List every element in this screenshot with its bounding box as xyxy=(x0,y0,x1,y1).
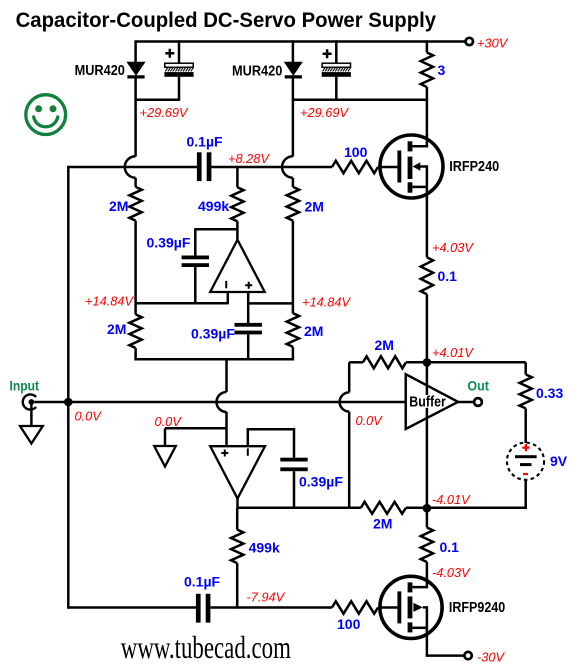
node -30V terminal xyxy=(464,652,471,659)
svg-text:www.tubecad.com: www.tubecad.com xyxy=(121,629,292,664)
svg-text:+14.84V: +14.84V xyxy=(302,295,351,310)
wire gate lead Q1 xyxy=(378,166,397,169)
wire +14.84V left segment xyxy=(136,302,228,305)
buffer U3 label xyxy=(408,395,446,408)
wire R11 to +4.01V node xyxy=(426,294,429,362)
svg-text:IRFP240: IRFP240 xyxy=(449,158,499,175)
resistor R3 2M xyxy=(129,314,141,348)
svg-text:Input: Input xyxy=(10,378,40,394)
resistor R13 499k xyxy=(236,508,239,530)
wire battery bottom lead xyxy=(431,480,526,508)
wire U2 inverting loop xyxy=(248,429,294,458)
wire diode D2 bottom lead xyxy=(292,78,295,101)
wire center tap lower xyxy=(225,412,228,447)
svg-text:-7.94V: -7.94V xyxy=(247,590,286,605)
wire buffer output xyxy=(458,401,474,404)
capacitor C4 0.39uF top lead xyxy=(194,228,197,255)
svg-text:+4.03V: +4.03V xyxy=(432,240,474,255)
wire capacitor C1 bottom lead xyxy=(178,77,181,101)
battery B1 9V xyxy=(507,443,544,480)
resistor R12 0.1 xyxy=(421,528,433,563)
capacitor C2 electrolytic top lead xyxy=(335,40,338,63)
wire center tap upper xyxy=(225,359,228,392)
resistor R6 100 xyxy=(332,161,378,173)
op-amp U1 xyxy=(210,240,265,292)
resistor R8 2M top xyxy=(349,361,363,364)
resistor R2 2M xyxy=(129,187,141,221)
wire output row left xyxy=(237,507,361,510)
wire +4.01V row xyxy=(427,361,526,364)
capacitor C1 electrolytic top lead xyxy=(178,40,181,63)
wire capacitor C2 bottom lead xyxy=(335,77,338,101)
wire bottom row mid xyxy=(210,606,332,609)
input jack J1 xyxy=(23,394,36,409)
wire hop center tap over input xyxy=(217,392,227,412)
wire +14.84V right segment xyxy=(248,302,293,305)
wire right rail mid xyxy=(292,221,295,314)
svg-text:0.0V: 0.0V xyxy=(356,413,384,428)
wire gate lead Q2 xyxy=(378,606,397,609)
svg-text:Buffer: Buffer xyxy=(409,394,446,411)
wire signal mid segment +8.28V xyxy=(211,166,332,169)
svg-text:0.1µF: 0.1µF xyxy=(187,133,224,149)
svg-text:0.1: 0.1 xyxy=(438,268,458,284)
smiley logo xyxy=(26,95,66,135)
svg-text:2M: 2M xyxy=(107,321,126,337)
wire left rail lower xyxy=(134,348,137,361)
svg-text:IRFP9240: IRFP9240 xyxy=(449,599,505,616)
svg-text:0.33: 0.33 xyxy=(536,385,563,401)
wire right rail to R4 xyxy=(292,178,295,187)
svg-text:499k: 499k xyxy=(249,540,280,556)
resistor R14 100 xyxy=(332,601,378,613)
node input junction xyxy=(64,398,73,407)
capacitor C1 electrolytic + sign xyxy=(165,49,174,58)
wire buffer rail through xyxy=(426,362,429,508)
wire left rail mid xyxy=(134,221,137,315)
node -4.01V junction xyxy=(423,504,432,513)
wire diode D1 bottom lead xyxy=(134,78,137,101)
wire right rail upper xyxy=(292,100,295,157)
wire right rail lower xyxy=(292,347,295,361)
wire servo bottom rail xyxy=(136,358,293,361)
svg-text:3: 3 xyxy=(438,62,446,78)
wire input rail corner xyxy=(67,166,70,402)
svg-text:0.39µF: 0.39µF xyxy=(147,235,191,251)
svg-text:+8.28V: +8.28V xyxy=(228,151,270,166)
node +30V terminal xyxy=(466,38,473,45)
capacitor C6 0.39uF xyxy=(280,458,307,462)
wire hop buffer rail over input xyxy=(348,362,351,392)
wire input to junction xyxy=(34,401,406,404)
wire junction 1 +29.69V xyxy=(136,98,179,101)
svg-text:-4.03V: -4.03V xyxy=(432,565,471,580)
wire left rail to R2 xyxy=(134,178,137,187)
resistor R9 2M bottom xyxy=(361,502,406,514)
wire feedback top xyxy=(195,228,237,231)
svg-text:9V: 9V xyxy=(550,453,568,469)
wire input rail lower xyxy=(67,402,70,609)
svg-text:MUR420: MUR420 xyxy=(232,62,282,79)
wire U2 output lead xyxy=(236,497,239,509)
capacitor C5 bottom lead xyxy=(247,334,250,360)
wire signal left segment xyxy=(68,166,197,169)
capacitor C2 electrolytic xyxy=(322,63,350,67)
transistor Q2 IRFP9240 xyxy=(380,576,442,638)
svg-text:+4.01V: +4.01V xyxy=(432,345,474,360)
transistor Q1 IRFP240 xyxy=(380,135,443,198)
wire Q2 source to -30V xyxy=(427,628,465,656)
node Out terminal xyxy=(474,398,482,406)
capacitor C3 0.1uF xyxy=(197,152,202,181)
wire -4.01V row xyxy=(427,507,526,510)
diode D2 MUR420 xyxy=(285,62,302,75)
svg-text:+29.69V: +29.69V xyxy=(140,105,189,120)
svg-text:Out: Out xyxy=(467,377,489,393)
svg-text:0.0V: 0.0V xyxy=(155,414,183,429)
svg-text:MUR420: MUR420 xyxy=(75,62,125,79)
capacitor C1 electrolytic xyxy=(165,63,193,67)
svg-text:100: 100 xyxy=(337,616,361,632)
node +4.01V junction xyxy=(423,358,432,367)
svg-text:0.1µF: 0.1µF xyxy=(184,574,221,590)
capacitor C7 0.1uF xyxy=(196,594,201,623)
wire hop left rail over signal xyxy=(125,156,136,178)
svg-text:2M: 2M xyxy=(109,198,128,214)
wire left rail upper xyxy=(134,100,137,157)
wire diode D2 top lead xyxy=(292,40,295,62)
buffer U3 xyxy=(406,374,458,429)
resistor R11 0.1 xyxy=(421,257,433,294)
wire Q1 source to R11 xyxy=(426,197,429,257)
svg-text:2M: 2M xyxy=(373,516,392,532)
wire R12 to Q2 xyxy=(426,562,429,578)
wire junction 2 +29.69V xyxy=(293,98,427,101)
svg-text:2M: 2M xyxy=(304,323,323,339)
wire diode D1 top lead xyxy=(134,40,137,62)
wire U1 inverting stub xyxy=(227,292,230,305)
resistor R7 499k xyxy=(236,167,239,187)
capacitor C4 0.39uF xyxy=(182,256,209,260)
resistor R5 2M xyxy=(287,313,299,347)
wire top +30V rail xyxy=(136,40,466,43)
wire -4.01V node to R12 xyxy=(426,508,429,527)
svg-text:0.39µF: 0.39µF xyxy=(191,326,235,342)
wire ground spur xyxy=(165,427,227,430)
op-amp U2 xyxy=(210,446,265,498)
svg-text:2M: 2M xyxy=(305,199,324,215)
capacitor C6 bottom lead xyxy=(293,471,296,509)
capacitor C2 electrolytic + sign xyxy=(323,49,332,58)
wire bottom row left xyxy=(68,606,196,609)
resistor R10 0.33 xyxy=(524,362,527,374)
resistor R1 3-ohm xyxy=(426,40,429,52)
svg-text:+30V: +30V xyxy=(477,36,509,51)
wire hop right rail over signal xyxy=(282,156,293,178)
resistor R4 2M xyxy=(287,187,299,221)
ground G2 xyxy=(164,428,167,446)
svg-text:0.39µF: 0.39µF xyxy=(299,474,343,490)
svg-text:0.1: 0.1 xyxy=(440,539,460,555)
svg-text:-30V: -30V xyxy=(477,650,505,665)
wire U1 noninverting stub xyxy=(247,292,250,324)
svg-text:Capacitor-Coupled DC-Servo Pow: Capacitor-Coupled DC-Servo Power Supply xyxy=(16,9,437,32)
diode D1 MUR420 xyxy=(127,62,144,75)
ground G1 xyxy=(30,405,33,427)
wire Q1 drain feed xyxy=(426,100,429,136)
svg-text:+29.69V: +29.69V xyxy=(300,105,349,120)
capacitor C4 bottom lead xyxy=(194,267,197,304)
svg-text:+14.84V: +14.84V xyxy=(85,294,134,309)
svg-text:0.0V: 0.0V xyxy=(75,409,103,424)
svg-text:100: 100 xyxy=(344,144,368,160)
svg-text:499k: 499k xyxy=(198,198,229,214)
svg-text:2M: 2M xyxy=(375,337,394,353)
website footer xyxy=(121,629,292,664)
capacitor C5 0.39uF xyxy=(235,323,262,327)
svg-text:-4.01V: -4.01V xyxy=(432,492,471,507)
